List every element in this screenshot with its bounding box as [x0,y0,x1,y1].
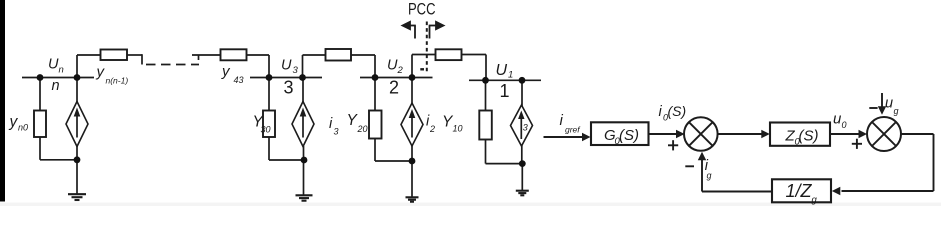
svg-text:43: 43 [234,75,244,85]
svg-text:(S): (S) [668,103,687,119]
svg-text:n: n [59,65,64,76]
svg-text:3: 3 [334,127,339,137]
svg-text:0: 0 [842,120,847,130]
svg-text:gref: gref [565,125,581,135]
svg-text:3: 3 [293,65,299,76]
svg-text:y: y [9,114,19,131]
svg-text:g: g [812,195,818,206]
svg-text:(S): (S) [799,128,819,145]
svg-text:2: 2 [429,124,435,134]
svg-text:g: g [707,171,712,181]
svg-text:U: U [48,57,59,73]
svg-text:20: 20 [357,124,368,134]
svg-text:1: 1 [508,70,513,81]
svg-text:g: g [894,106,899,116]
svg-text:30: 30 [261,125,271,135]
svg-text:U: U [496,62,508,79]
svg-text:3: 3 [523,123,528,133]
svg-text:n0: n0 [18,123,28,133]
svg-text:1: 1 [500,81,510,101]
svg-text:(S): (S) [619,127,639,144]
svg-text:U: U [387,58,398,74]
svg-text:10: 10 [453,124,463,134]
svg-text:n: n [52,78,60,94]
svg-text:2: 2 [397,65,404,76]
svg-text:n(n-1): n(n-1) [106,76,129,86]
svg-text:U: U [281,58,292,74]
svg-text:3: 3 [284,78,294,98]
svg-text:u: u [885,96,893,112]
svg-text:PCC: PCC [408,0,436,19]
svg-text:2: 2 [389,78,399,98]
svg-text:1/Z: 1/Z [786,181,813,201]
